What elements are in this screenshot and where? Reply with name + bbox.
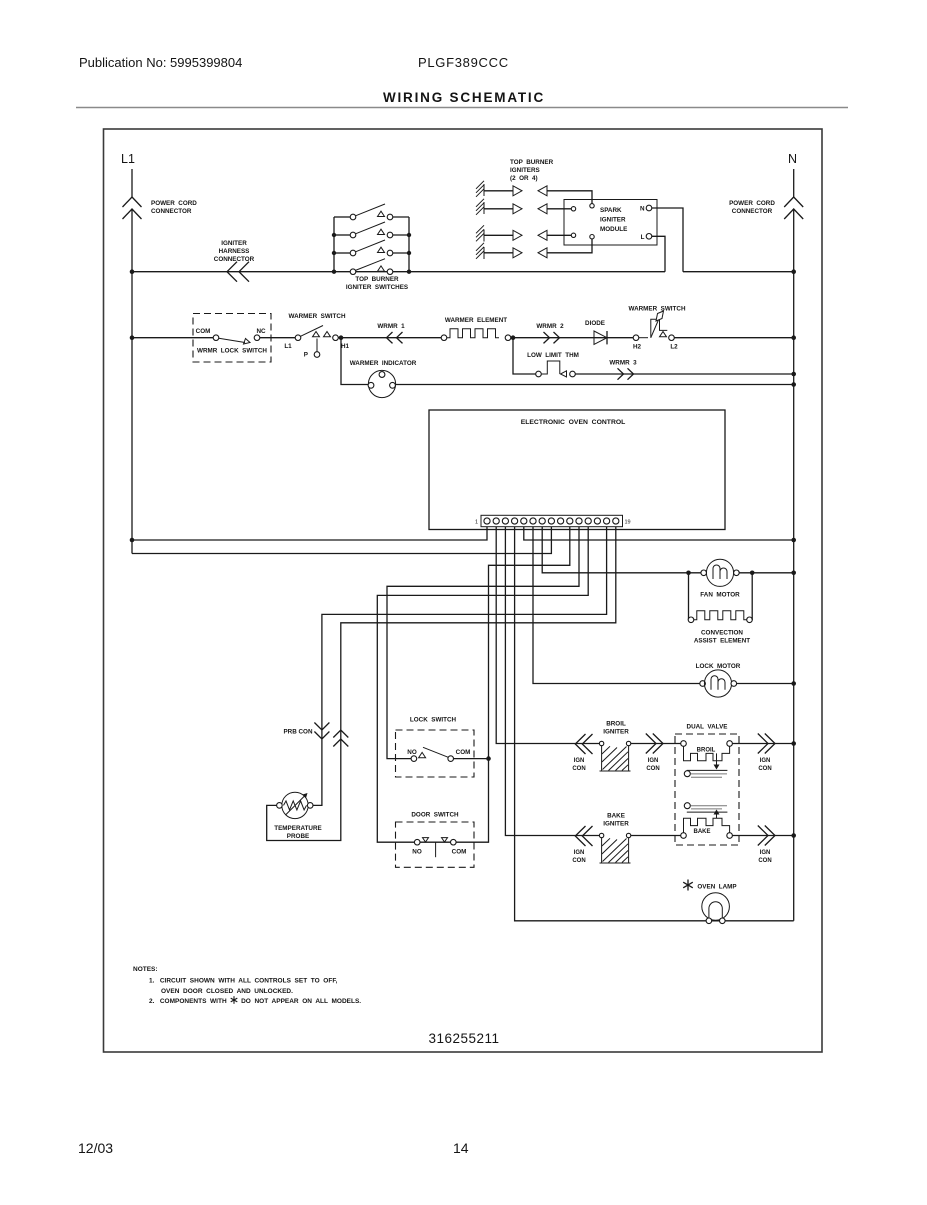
svg-text:12/03: 12/03 <box>78 1140 113 1156</box>
svg-text:LOW LIMIT THM: LOW LIMIT THM <box>527 352 579 359</box>
wire convection branch right <box>751 573 753 620</box>
notes block <box>133 966 361 1005</box>
svg-text:DIODE: DIODE <box>585 320 605 327</box>
wire terminal4 to oven lamp line <box>515 527 794 921</box>
terminal pins 1-15 <box>484 518 619 524</box>
wire low limit branch drop <box>513 338 536 374</box>
convection assist element <box>688 617 694 623</box>
svg-text:LOCK MOTOR: LOCK MOTOR <box>696 663 741 670</box>
svg-text:H1: H1 <box>341 343 350 350</box>
wire lock motor to N rail <box>737 683 794 685</box>
wire terminal8 to L1 rail (bus2) <box>132 527 551 554</box>
node junction L1/warmer line <box>130 335 135 340</box>
wire broil valve to N rail <box>732 743 793 745</box>
svg-text:L1: L1 <box>284 343 292 350</box>
svg-text:TOP BURNER: TOP BURNER <box>510 159 554 166</box>
wire L terminal riser <box>652 236 665 271</box>
connector IGN CON broil left <box>575 734 592 754</box>
broil valve actuator <box>716 753 718 765</box>
svg-text:CON: CON <box>646 766 659 772</box>
svg-text:COM: COM <box>452 849 467 856</box>
node junction fan/convection left <box>686 571 691 576</box>
svg-text:IGNITER: IGNITER <box>603 729 629 736</box>
connector IGN CON bake right <box>758 826 775 846</box>
switch SW1 <box>334 204 409 220</box>
wire N rail lower <box>793 210 795 921</box>
node junction N/wrmr3 line <box>791 372 796 377</box>
svg-text:N: N <box>788 152 797 166</box>
svg-text:WIRING SCHEMATIC: WIRING SCHEMATIC <box>383 90 545 105</box>
svg-text:OVEN LAMP: OVEN LAMP <box>697 884 736 891</box>
wire indicator to N rail <box>396 384 794 386</box>
bake valve actuator <box>716 814 718 819</box>
svg-text:IGN: IGN <box>760 850 771 856</box>
wire N net top line <box>683 271 794 273</box>
connector IGN CON broil mid <box>646 734 663 754</box>
switch SW4 <box>332 259 411 275</box>
connector IGN CON broil right <box>758 734 775 754</box>
svg-text:316255211: 316255211 <box>428 1031 499 1046</box>
wire low limit to N rail <box>575 373 793 375</box>
svg-text:BAKE: BAKE <box>607 813 625 820</box>
wire terminal15 to probe return <box>267 527 616 841</box>
switch SW2 <box>332 222 411 238</box>
svg-text:POWER CORD: POWER CORD <box>151 200 197 207</box>
wire fan motor to N rail <box>739 572 794 574</box>
pin P of warmer switch <box>316 339 318 353</box>
node junction N/lock motor line <box>791 681 796 686</box>
spark igniter module U1 <box>564 200 657 246</box>
svg-text:L2: L2 <box>670 344 678 351</box>
node junction N/bake line <box>791 833 796 838</box>
svg-text:CON: CON <box>572 858 585 864</box>
svg-text:CONNECTOR: CONNECTOR <box>214 256 255 263</box>
svg-text:COM: COM <box>196 328 211 335</box>
svg-text:DUAL VALVE: DUAL VALVE <box>687 724 728 731</box>
svg-text:L: L <box>641 234 645 241</box>
wire bake valve to N rail <box>732 835 793 837</box>
igniter row 3 <box>476 225 576 241</box>
svg-text:WARMER SWITCH: WARMER SWITCH <box>628 306 685 313</box>
asterisk mark in note 2 <box>231 996 238 1004</box>
svg-text:Publication No: 5995399804: Publication No: 5995399804 <box>79 55 242 70</box>
svg-text:1. CIRCUIT SHOWN WITH ALL: 1. CIRCUIT SHOWN WITH ALL CONTROLS SET T… <box>149 978 338 985</box>
wire warmer feed <box>132 337 213 339</box>
node junction N/warmer line <box>791 335 796 340</box>
wire element to H2 <box>511 337 633 339</box>
wire L net top line <box>132 271 665 273</box>
node junction L1/bus1 <box>130 538 135 543</box>
schematic outer border <box>104 129 823 1052</box>
wire terminal12 to door switch NO <box>377 527 588 843</box>
switch SW3 <box>332 240 411 256</box>
svg-text:MODULE: MODULE <box>600 226 627 233</box>
svg-text:CONNECTOR: CONNECTOR <box>732 208 773 215</box>
svg-text:L1: L1 <box>121 152 135 166</box>
svg-text:2. COMPONENTS WITH D: 2. COMPONENTS WITH DO NOT APPEAR ON ALL … <box>149 998 361 1005</box>
igniter harness connector <box>227 262 249 282</box>
wire L1 rail lower <box>131 210 133 554</box>
wire terminal3 to bake line <box>505 527 599 836</box>
wire bake igniter to valve <box>631 835 681 837</box>
wire L1 rail upper <box>131 169 133 197</box>
wire H1 to warmer element <box>338 337 441 339</box>
temperature probe RT1 <box>282 792 308 818</box>
svg-text:H2: H2 <box>633 344 642 351</box>
title underline <box>76 107 848 109</box>
svg-text:IGNITER: IGNITER <box>600 217 626 224</box>
svg-text:IGNITERS: IGNITERS <box>510 167 540 174</box>
svg-text:IGNITER: IGNITER <box>221 240 247 247</box>
svg-text:PRB CON: PRB CON <box>283 729 312 736</box>
svg-text:TOP BURNER: TOP BURNER <box>355 276 399 283</box>
svg-text:WRMR 3: WRMR 3 <box>609 360 637 367</box>
wire terminal2 to broil line <box>496 527 599 744</box>
pin H1 of warmer switch <box>333 335 339 341</box>
warmer lock switch (dashed enclosure) <box>193 314 271 363</box>
svg-text:BAKE: BAKE <box>693 829 710 835</box>
svg-text:NOTES:: NOTES: <box>133 966 158 973</box>
wire terminal5 to N bus <box>524 527 794 540</box>
wire right bus <box>408 217 410 272</box>
svg-text:BROIL: BROIL <box>697 748 716 754</box>
svg-text:IGN: IGN <box>574 758 585 764</box>
svg-text:CON: CON <box>572 766 585 772</box>
wire N rail upper <box>793 169 795 197</box>
wire N terminal riser <box>652 208 683 272</box>
svg-text:BROIL: BROIL <box>606 721 626 728</box>
wire terminal7 to fan motor <box>542 527 701 573</box>
svg-text:IGN: IGN <box>574 850 585 856</box>
pin H2 warmer switch right <box>633 335 639 341</box>
svg-text:NO: NO <box>407 749 417 756</box>
wire terminal14 to probe connector <box>313 527 607 806</box>
svg-text:TEMPERATURE: TEMPERATURE <box>274 825 321 832</box>
svg-text:WRMR LOCK SWITCH: WRMR LOCK SWITCH <box>197 348 267 355</box>
svg-text:ASSIST ELEMENT: ASSIST ELEMENT <box>694 638 750 645</box>
wire left bus <box>333 217 335 272</box>
svg-text:PROBE: PROBE <box>287 833 309 840</box>
wire convection branch left <box>688 573 690 620</box>
terminal strip of oven control <box>481 515 623 526</box>
svg-text:POWER CORD: POWER CORD <box>729 200 775 207</box>
svg-text:IGNITER: IGNITER <box>603 821 629 828</box>
svg-text:CON: CON <box>758 858 771 864</box>
svg-text:WRMR 1: WRMR 1 <box>377 323 405 330</box>
bake valve coil <box>681 833 687 839</box>
node junction N/top line <box>791 269 796 274</box>
top burner igniter switches <box>332 204 411 291</box>
node junction N/bus1 <box>791 538 796 543</box>
svg-text:(2 OR 4): (2 OR 4) <box>510 175 538 182</box>
node junction H1/indicator branch <box>339 335 344 340</box>
wire terminal6 to lock motor <box>533 527 700 684</box>
node junction fan/convection right <box>750 571 755 576</box>
svg-text:N: N <box>640 206 645 213</box>
svg-text:IGNITER SWITCHES: IGNITER SWITCHES <box>346 284 408 291</box>
wire terminal1 to L1 bus <box>132 527 487 540</box>
wire terminal11 to lock switch NO <box>387 527 579 759</box>
power cord connector right <box>784 197 803 219</box>
svg-text:SPARK: SPARK <box>600 207 622 214</box>
svg-text:IGN: IGN <box>760 758 771 764</box>
svg-text:WARMER SWITCH: WARMER SWITCH <box>288 313 345 320</box>
svg-text:14: 14 <box>453 1140 469 1156</box>
svg-text:1: 1 <box>475 520 478 526</box>
wire broil igniter to valve <box>631 743 681 745</box>
node junction N/fan line <box>791 571 796 576</box>
svg-text:PLGF389CCC: PLGF389CCC <box>418 55 509 70</box>
node junction N/broil line <box>791 741 796 746</box>
svg-text:IGN: IGN <box>648 758 659 764</box>
svg-text:LOCK SWITCH: LOCK SWITCH <box>410 717 457 724</box>
svg-text:HARNESS: HARNESS <box>219 248 250 255</box>
electronic oven control U2 <box>429 410 725 530</box>
svg-text:CON: CON <box>758 766 771 772</box>
igniter row 2 <box>476 199 576 215</box>
wire L2 to N rail <box>674 337 793 339</box>
wire lock switch COM to junction <box>454 758 489 760</box>
wire lock switch to warmer switch <box>260 337 295 339</box>
svg-text:CONNECTOR: CONNECTOR <box>151 208 192 215</box>
node junction N/indicator line <box>791 382 796 387</box>
svg-text:WRMR 2: WRMR 2 <box>536 323 564 330</box>
svg-text:19: 19 <box>625 520 631 526</box>
node junction element/low-limit branch <box>511 335 516 340</box>
svg-text:NO: NO <box>412 849 422 856</box>
node junction lock COM tap <box>486 756 491 761</box>
pin L2 warmer switch right <box>669 335 675 341</box>
node junction L1/igniter line <box>130 269 135 274</box>
connector IGN CON bake left <box>575 826 592 846</box>
svg-text:COM: COM <box>456 749 471 756</box>
svg-text:FAN MOTOR: FAN MOTOR <box>700 592 740 599</box>
svg-text:OVEN DOOR CLOSED AND UNLOC: OVEN DOOR CLOSED AND UNLOCKED. <box>161 988 293 995</box>
igniter row 4 <box>476 235 594 260</box>
broil valve coil <box>681 741 687 747</box>
svg-text:ELECTRONIC OVEN CONTROL: ELECTRONIC OVEN CONTROL <box>521 419 626 426</box>
svg-text:P: P <box>304 352 308 359</box>
svg-text:DOOR SWITCH: DOOR SWITCH <box>411 812 459 819</box>
igniter row 1 <box>476 181 594 208</box>
svg-text:NC: NC <box>256 328 266 335</box>
svg-text:CONVECTION: CONVECTION <box>701 630 743 637</box>
svg-text:WARMER INDICATOR: WARMER INDICATOR <box>350 360 417 367</box>
power cord connector left <box>123 197 142 219</box>
asterisk mark for oven lamp <box>683 880 693 891</box>
svg-text:WARMER ELEMENT: WARMER ELEMENT <box>445 317 507 324</box>
wire indicator branch <box>341 338 369 385</box>
wire terminal10 to lock/door switch COM <box>456 527 570 843</box>
